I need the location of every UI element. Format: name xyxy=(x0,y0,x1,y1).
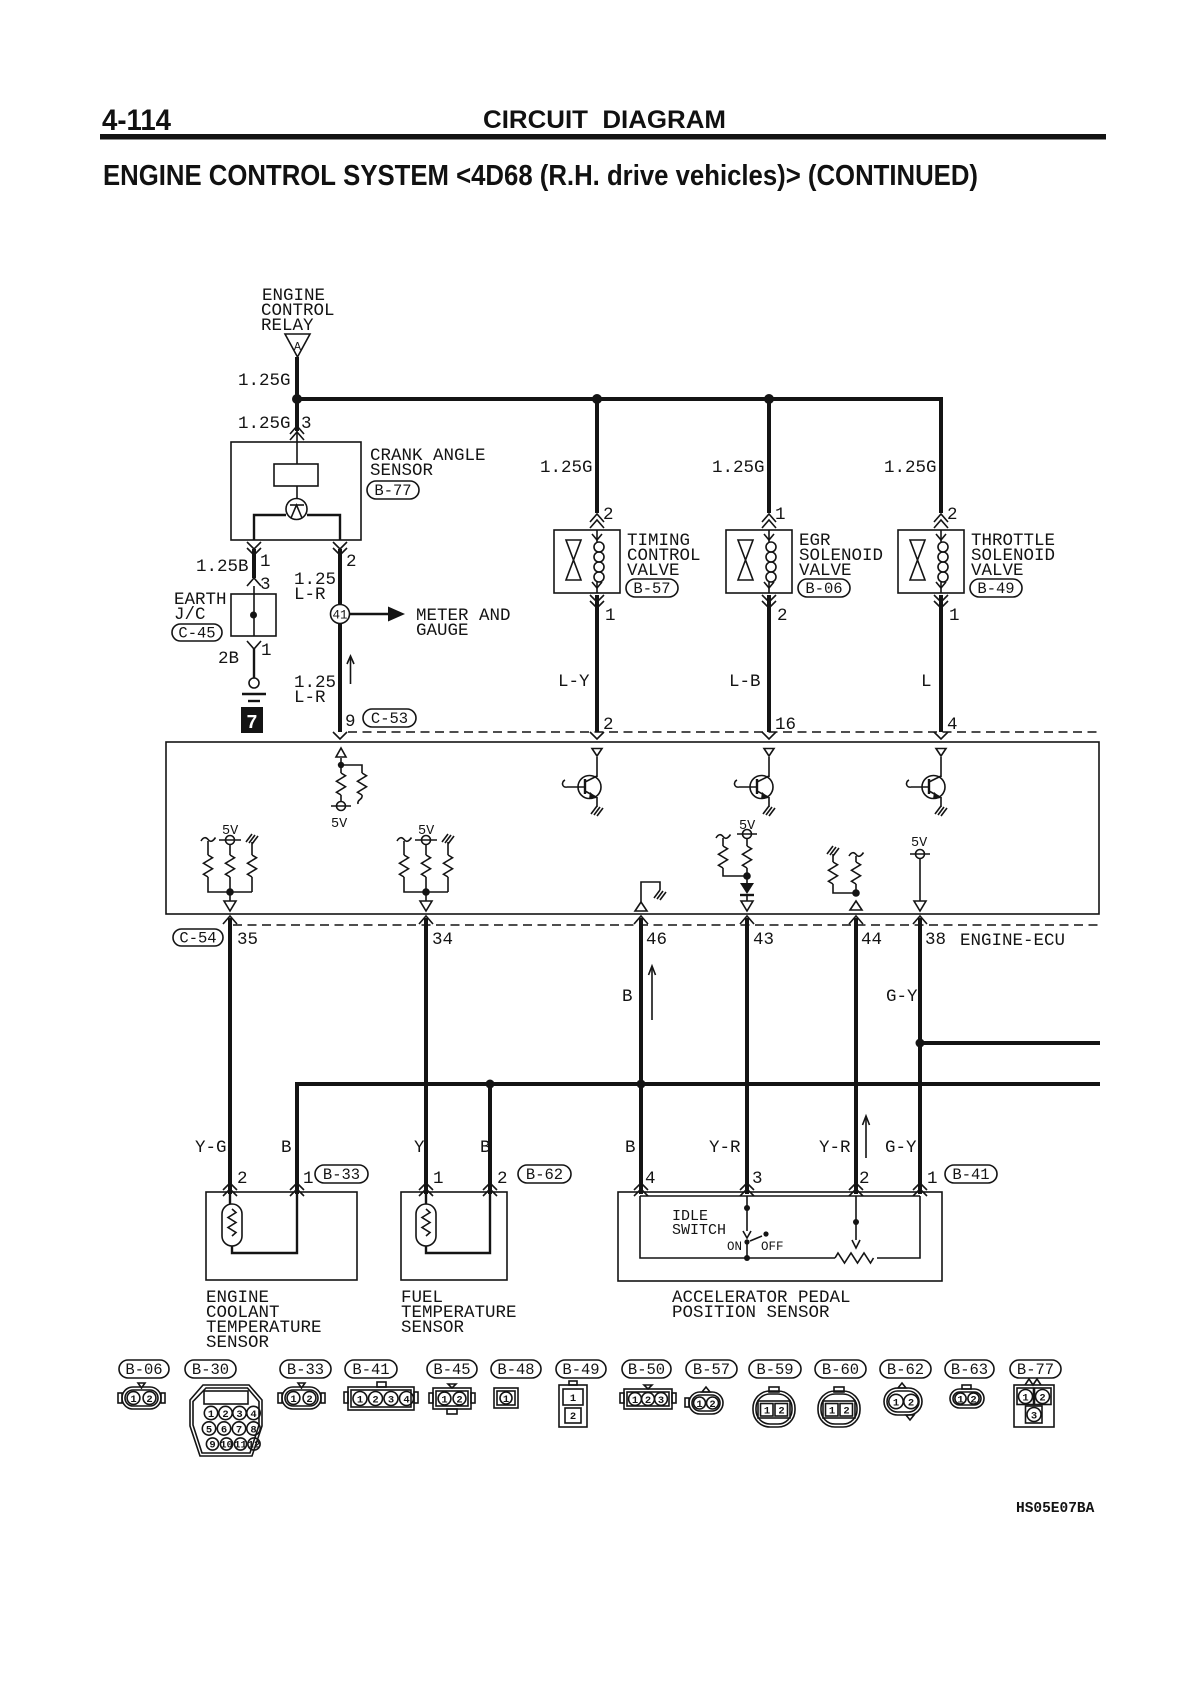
thermistor xyxy=(416,1204,436,1246)
node: fuel sensor ground joins bus xyxy=(486,1080,495,1089)
svg-text:2: 2 xyxy=(146,1394,152,1406)
svg-text:43: 43 xyxy=(753,930,774,950)
wire Y-G: ECU 35 to coolant sensor pin 2 xyxy=(228,918,232,1194)
wire 1.25 L-R down to ECU xyxy=(338,549,342,732)
svg-text:1: 1 xyxy=(764,1406,770,1418)
wire B: ECU 46 to pedal sensor pin 4 xyxy=(639,918,643,1194)
connector label B-41 xyxy=(945,1165,997,1183)
connector label B-60 xyxy=(815,1360,866,1378)
connector B-60 drawing xyxy=(818,1387,860,1427)
wire 1.25G to timing control valve xyxy=(595,399,599,513)
connector chevrons into B-77 xyxy=(290,432,304,440)
pin 2 of B-41 xyxy=(849,1183,863,1190)
svg-text:HS05E07BA: HS05E07BA xyxy=(1016,1501,1095,1517)
relay source triangle A xyxy=(285,334,310,357)
svg-text:4-114: 4-114 xyxy=(102,104,171,137)
connector B-63 drawing xyxy=(950,1385,984,1408)
wire: 1.25G horizontal bus xyxy=(297,399,943,402)
connector label B-06 xyxy=(119,1360,169,1378)
svg-text:1: 1 xyxy=(261,641,272,661)
svg-text:4: 4 xyxy=(250,1409,256,1421)
svg-text:1: 1 xyxy=(957,1395,963,1407)
connector chevrons out of B-49 xyxy=(934,595,948,602)
svg-text:L-R: L-R xyxy=(294,585,326,605)
connector B-59 drawing xyxy=(753,1387,795,1427)
svg-text:1.25B: 1.25B xyxy=(196,557,249,577)
wire inside sensor to pins xyxy=(254,515,286,540)
C-54 connector dashed boundary xyxy=(233,924,1099,926)
svg-text:3: 3 xyxy=(236,1409,242,1421)
node: junction of relay feed and 1.25G bus xyxy=(292,394,302,404)
svg-text:2: 2 xyxy=(346,552,357,572)
svg-text:1: 1 xyxy=(632,1395,638,1407)
connector chevrons out of B-77 pin 2 xyxy=(333,542,347,549)
svg-text:2: 2 xyxy=(237,1169,248,1189)
wire inside sensor xyxy=(296,431,298,464)
pin 1 of B-33 xyxy=(290,1183,304,1190)
connector label B-49 xyxy=(556,1360,606,1378)
C-54 pin 38 xyxy=(913,916,927,924)
C-54 pin 43 xyxy=(740,916,754,924)
wire Y-R: ECU 44 to pedal sensor pin 2 xyxy=(854,918,858,1194)
wire from relay triangle down to junction xyxy=(295,357,299,399)
connector label B-62 xyxy=(518,1165,571,1183)
wire Y-R: ECU 43 to pedal sensor pin 3 xyxy=(745,918,749,1194)
crank sensor oscillator circle xyxy=(286,499,307,520)
wire L-Y to ECU pin 2 xyxy=(595,595,599,732)
svg-text:2: 2 xyxy=(645,1395,651,1407)
C-54 pin 44 xyxy=(849,916,863,924)
wire down to crank angle sensor xyxy=(295,399,299,431)
pin 4 of B-41 xyxy=(634,1183,648,1190)
svg-text:ON: ON xyxy=(727,1240,742,1254)
svg-text:B-57: B-57 xyxy=(633,580,670,598)
connector label B-41 xyxy=(345,1360,397,1378)
svg-text:C-53: C-53 xyxy=(371,710,408,728)
solenoid coil L2 xyxy=(768,530,770,542)
svg-text:35: 35 xyxy=(237,930,258,950)
svg-text:B: B xyxy=(281,1138,292,1158)
svg-text:2: 2 xyxy=(908,1398,914,1410)
driver transistor Q2 (EGR solenoid valve) xyxy=(764,749,774,757)
svg-text:1: 1 xyxy=(433,1169,444,1189)
svg-text:38: 38 xyxy=(925,930,946,950)
svg-text:B-30: B-30 xyxy=(192,1361,229,1379)
svg-text:C-45: C-45 xyxy=(178,625,215,643)
connector label B-48 xyxy=(491,1360,541,1378)
svg-text:3: 3 xyxy=(658,1395,664,1407)
pin 3 of B-41 xyxy=(740,1183,754,1190)
svg-text:2: 2 xyxy=(859,1169,870,1189)
wire 1.25G to throttle solenoid valve xyxy=(939,399,943,513)
svg-text:1: 1 xyxy=(303,1169,314,1189)
solenoid coil L1 xyxy=(596,530,598,542)
wire 1.25B from crank sensor pin1 xyxy=(252,549,256,578)
svg-text:4: 4 xyxy=(403,1395,409,1407)
header rule xyxy=(100,134,1106,140)
svg-text:SENSOR: SENSOR xyxy=(370,461,434,481)
svg-text:1: 1 xyxy=(775,505,786,525)
svg-text:1: 1 xyxy=(570,1393,576,1405)
svg-text:SWITCH: SWITCH xyxy=(672,1222,726,1239)
svg-text:G-Y: G-Y xyxy=(885,1138,917,1158)
svg-text:2: 2 xyxy=(1039,1393,1045,1405)
wire 1.25G to EGR solenoid valve xyxy=(767,399,771,513)
connector chevron into C-45 xyxy=(247,578,261,586)
crank angle sensor B-77 box xyxy=(231,442,361,540)
svg-text:1: 1 xyxy=(605,606,616,626)
connector label B-33 xyxy=(280,1360,331,1378)
svg-text:Y-R: Y-R xyxy=(819,1138,851,1158)
svg-text:3: 3 xyxy=(1031,1411,1037,1423)
connector B-48 drawing xyxy=(494,1388,518,1408)
svg-text:2: 2 xyxy=(570,1411,576,1423)
svg-text:7: 7 xyxy=(246,712,257,734)
svg-text:A: A xyxy=(294,340,302,354)
svg-text:9: 9 xyxy=(209,1440,215,1452)
connector B-77 drawing xyxy=(1014,1379,1054,1427)
svg-text:L-B: L-B xyxy=(729,672,761,692)
connector chevron into C-53 xyxy=(590,732,604,739)
connector label C-45 xyxy=(172,624,222,641)
crank sensor pickup element xyxy=(274,464,318,486)
svg-text:3: 3 xyxy=(388,1395,394,1407)
wire L-B to ECU pin 16 xyxy=(767,595,771,732)
connector label C-54 xyxy=(173,929,223,946)
svg-text:1: 1 xyxy=(260,552,271,572)
svg-text:B: B xyxy=(625,1138,636,1158)
svg-text:B-41: B-41 xyxy=(952,1166,989,1184)
svg-text:RELAY: RELAY xyxy=(261,316,314,336)
earth J/C C-45 box xyxy=(231,594,276,636)
sensor internal wire xyxy=(232,1192,297,1253)
sensor inner frame xyxy=(640,1196,920,1258)
ENGINE-ECU box xyxy=(166,742,1099,914)
node inside earth J/C xyxy=(250,612,257,619)
svg-text:44: 44 xyxy=(861,930,882,950)
svg-text:CIRCUIT DIAGRAM: CIRCUIT DIAGRAM xyxy=(483,106,726,134)
svg-text:SENSOR: SENSOR xyxy=(206,1333,270,1353)
connector label B-33 xyxy=(315,1165,368,1183)
svg-text:B-06: B-06 xyxy=(805,580,842,598)
pin 1 of B-41 xyxy=(913,1183,927,1190)
svg-text:L: L xyxy=(921,672,932,692)
svg-text:5: 5 xyxy=(206,1425,212,1437)
svg-text:B-60: B-60 xyxy=(822,1361,859,1379)
svg-text:B-45: B-45 xyxy=(433,1361,470,1379)
svg-text:G-Y: G-Y xyxy=(886,987,918,1007)
svg-text:1: 1 xyxy=(927,1169,938,1189)
svg-text:OFF: OFF xyxy=(761,1240,784,1254)
svg-text:Y-G: Y-G xyxy=(195,1138,227,1158)
connector label B-50 xyxy=(622,1360,671,1378)
svg-text:11: 11 xyxy=(234,1440,247,1452)
arrow to meter and gauge xyxy=(350,613,392,615)
svg-text:7: 7 xyxy=(236,1425,242,1437)
connector chevrons out of B-57 xyxy=(590,595,604,602)
svg-text:L-Y: L-Y xyxy=(558,672,590,692)
svg-text:1: 1 xyxy=(503,1394,509,1406)
wire G-Y: ECU 38 to pedal sensor pin 1 xyxy=(918,918,922,1194)
connector B-41 drawing xyxy=(344,1382,418,1410)
EGR solenoid valve B-06 box xyxy=(726,530,792,593)
svg-text:12: 12 xyxy=(248,1440,261,1452)
svg-text:VALVE: VALVE xyxy=(799,561,852,581)
pin 2 of B-62 xyxy=(483,1183,497,1190)
svg-text:1: 1 xyxy=(893,1398,899,1410)
svg-text:1: 1 xyxy=(357,1395,363,1407)
accelerator pedal position sensor outer box xyxy=(618,1192,942,1281)
svg-text:34: 34 xyxy=(432,930,453,950)
connector B-49 drawing xyxy=(559,1381,587,1427)
svg-text:2: 2 xyxy=(372,1395,378,1407)
svg-text:2B: 2B xyxy=(218,649,239,669)
connector label B-77 xyxy=(1010,1360,1061,1378)
pin 2 of B-33 xyxy=(223,1183,237,1190)
svg-text:C-54: C-54 xyxy=(179,930,216,948)
svg-text:VALVE: VALVE xyxy=(971,561,1024,581)
svg-text:1: 1 xyxy=(441,1395,447,1407)
svg-text:B-41: B-41 xyxy=(352,1361,389,1379)
direction arrow xyxy=(865,1118,867,1158)
svg-text:2: 2 xyxy=(970,1395,976,1407)
connector B-33 drawing xyxy=(278,1383,325,1409)
svg-text:J/C: J/C xyxy=(174,605,206,625)
node xyxy=(338,762,344,768)
svg-text:B-49: B-49 xyxy=(977,580,1014,598)
timing control valve B-57 box xyxy=(554,530,620,593)
svg-text:2: 2 xyxy=(497,1169,508,1189)
ecu input from C-53 pin 9 xyxy=(336,748,346,757)
svg-text:2: 2 xyxy=(222,1409,228,1421)
svg-text:B-62: B-62 xyxy=(526,1166,563,1184)
svg-text:B-49: B-49 xyxy=(562,1361,599,1379)
svg-text:B-77: B-77 xyxy=(1017,1361,1054,1379)
connector label B-45 xyxy=(427,1360,477,1378)
C-54 pin 35 xyxy=(223,916,237,924)
node: pedal sensor ground joins bus xyxy=(637,1080,646,1089)
wire G-Y continuation to next page xyxy=(920,1041,1100,1045)
svg-text:1.25G: 1.25G xyxy=(712,458,765,478)
connector chevrons into B-06 xyxy=(762,514,776,522)
svg-text:1: 1 xyxy=(1022,1393,1028,1405)
ground xyxy=(249,678,259,688)
C-54 pin 46 xyxy=(634,916,648,924)
valve body symbol xyxy=(566,540,581,560)
direction arrow xyxy=(350,658,352,684)
connector label B-49 xyxy=(970,579,1022,597)
svg-text:B-48: B-48 xyxy=(497,1361,534,1379)
svg-text:3: 3 xyxy=(301,414,312,434)
potentiometer wiper xyxy=(855,1196,857,1222)
svg-text:B-77: B-77 xyxy=(374,482,411,500)
wire L to ECU pin 4 xyxy=(939,595,943,732)
svg-text:2: 2 xyxy=(709,1399,715,1411)
C-54 pin 34 xyxy=(419,916,433,924)
wire Y: ECU 34 to fuel sensor pin 1 xyxy=(424,918,428,1194)
node: G-Y branch to further circuit xyxy=(916,1039,925,1048)
ecu internal ground for pin 46 xyxy=(635,902,647,911)
svg-text:5V: 5V xyxy=(331,817,348,832)
pin 1 of B-62 xyxy=(419,1183,433,1190)
connector label B-63 xyxy=(945,1360,994,1378)
engine coolant temperature sensor box xyxy=(206,1192,357,1280)
connector label B-06 xyxy=(798,579,850,597)
wire 2B to ground xyxy=(253,649,255,678)
pull-up resistor to 5V xyxy=(340,765,342,773)
svg-text:1.25G: 1.25G xyxy=(884,458,937,478)
svg-text:B-59: B-59 xyxy=(756,1361,793,1379)
svg-text:10: 10 xyxy=(220,1440,233,1452)
solenoid coil L3 xyxy=(940,530,942,542)
svg-text:SENSOR: SENSOR xyxy=(401,1318,465,1338)
svg-text:1: 1 xyxy=(949,606,960,626)
connector chevron into C-53 xyxy=(762,732,776,739)
svg-text:1.25G: 1.25G xyxy=(540,458,593,478)
svg-text:L-R: L-R xyxy=(294,688,326,708)
driver transistor Q3 (throttle solenoid valve) xyxy=(936,749,946,757)
svg-text:6: 6 xyxy=(221,1425,227,1437)
svg-text:1: 1 xyxy=(290,1394,296,1406)
svg-text:1: 1 xyxy=(130,1394,136,1406)
svg-text:Y-R: Y-R xyxy=(709,1138,741,1158)
svg-text:1.25G: 1.25G xyxy=(238,414,291,434)
svg-text:B-62: B-62 xyxy=(887,1361,924,1379)
connector chevrons out of B-06 xyxy=(762,595,776,602)
connector B-57 drawing xyxy=(685,1387,723,1414)
svg-text:2: 2 xyxy=(843,1406,849,1418)
node: bus junction at EGR solenoid valve branch xyxy=(764,394,774,404)
svg-text:1: 1 xyxy=(696,1399,702,1411)
potentiometer resistor xyxy=(835,1253,874,1263)
connector B-30 drawing xyxy=(190,1385,262,1456)
svg-text:46: 46 xyxy=(646,930,667,950)
svg-text:2: 2 xyxy=(777,606,788,626)
svg-text:B: B xyxy=(480,1138,491,1158)
svg-text:ENGINE CONTROL SYSTEM <4D68 (R: ENGINE CONTROL SYSTEM <4D68 (R.H. drive … xyxy=(103,160,978,192)
connector chevron out of C-45 pin 1 xyxy=(247,641,261,649)
svg-text:9: 9 xyxy=(345,712,356,732)
svg-text:POSITION SENSOR: POSITION SENSOR xyxy=(672,1303,830,1323)
sensor internal wire xyxy=(426,1192,490,1253)
svg-text:8: 8 xyxy=(250,1425,256,1437)
fuel temperature sensor box xyxy=(401,1192,507,1280)
idle switch xyxy=(746,1196,748,1208)
connector label B-57 xyxy=(686,1360,737,1378)
svg-text:2: 2 xyxy=(603,505,614,525)
wire B: bus to fuel sensor pin 2 xyxy=(488,1084,492,1194)
svg-text:B-63: B-63 xyxy=(951,1361,988,1379)
connector B-45 drawing xyxy=(429,1384,475,1414)
node: bus junction at timing control valve branch xyxy=(592,394,602,404)
connector chevrons into B-57 xyxy=(590,514,604,522)
svg-text:B-33: B-33 xyxy=(287,1361,324,1379)
C-53 connector dashed boundary xyxy=(348,731,1099,733)
connector label B-62 xyxy=(880,1360,931,1378)
svg-text:GAUGE: GAUGE xyxy=(416,621,469,641)
connector label C-53 xyxy=(363,709,416,727)
connector chevrons out of B-77 pin 1 xyxy=(247,542,261,549)
connector chevron into C-53 xyxy=(333,732,347,739)
connector label B-30 xyxy=(185,1360,236,1378)
connector label B-77 xyxy=(367,481,419,499)
ecu sensor interface for pin 44 xyxy=(827,846,839,856)
thermistor xyxy=(222,1204,242,1246)
svg-text:1: 1 xyxy=(829,1406,835,1418)
svg-text:1: 1 xyxy=(208,1409,214,1421)
connector label B-59 xyxy=(749,1360,801,1378)
svg-text:VALVE: VALVE xyxy=(627,561,680,581)
svg-text:B-06: B-06 xyxy=(125,1361,162,1379)
sensor ground bus wire B xyxy=(297,1084,1100,1194)
svg-text:3: 3 xyxy=(260,575,271,595)
svg-text:2: 2 xyxy=(947,505,958,525)
svg-text:1.25G: 1.25G xyxy=(238,371,291,391)
5V supply xyxy=(337,802,346,811)
connector chevrons into B-49 xyxy=(934,514,948,522)
svg-text:B-33: B-33 xyxy=(323,1166,360,1184)
throttle solenoid valve B-49 box xyxy=(898,530,964,593)
svg-text:4: 4 xyxy=(645,1169,656,1189)
svg-text:ENGINE-ECU: ENGINE-ECU xyxy=(960,931,1065,951)
svg-text:2: 2 xyxy=(306,1394,312,1406)
svg-text:B-50: B-50 xyxy=(628,1361,665,1379)
valve body symbol xyxy=(910,540,925,560)
node 41 joint xyxy=(331,605,350,624)
svg-text:B-57: B-57 xyxy=(693,1361,730,1379)
diode D1 xyxy=(746,876,748,883)
connector label B-57 xyxy=(626,579,678,597)
reference mark 7 xyxy=(241,707,263,733)
svg-text:2: 2 xyxy=(456,1395,462,1407)
driver transistor Q1 (timing control valve) xyxy=(592,749,602,757)
resistor to internal circuit xyxy=(341,765,362,773)
svg-text:2: 2 xyxy=(778,1406,784,1418)
connector B-50 drawing xyxy=(620,1385,676,1409)
direction arrow xyxy=(651,968,653,1020)
svg-text:Y: Y xyxy=(414,1138,425,1158)
connector chevron into C-53 xyxy=(934,732,948,739)
connector B-62 drawing xyxy=(884,1383,922,1420)
svg-text:3: 3 xyxy=(752,1169,763,1189)
connector B-06 drawing xyxy=(118,1383,165,1409)
svg-text:B: B xyxy=(622,987,633,1007)
valve body symbol xyxy=(738,540,753,560)
svg-text:41: 41 xyxy=(332,609,347,623)
